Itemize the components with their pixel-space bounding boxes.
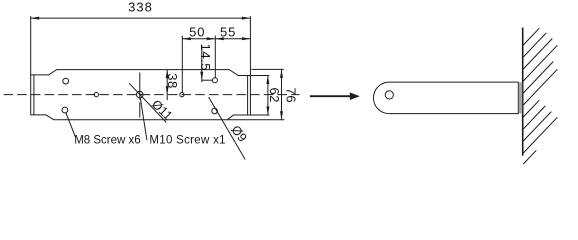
arrow 62 top [266, 76, 269, 85]
62 top extension line [250, 75, 269, 77]
arrow 38 top [166, 70, 169, 79]
dimension 14.5 line [201, 45, 203, 82]
hole center M10 diameter 11 [137, 91, 144, 98]
part bottom main edge extended to 76 dim [54, 119, 285, 121]
mounting plate gray strip [519, 82, 522, 113]
hole vertical centerline lower [139, 102, 141, 117]
arrow 50 left [182, 37, 191, 40]
arrow 338 left [31, 17, 40, 20]
part right inner end line [247, 76, 249, 116]
hole upper-left M8 [63, 78, 69, 84]
leader dia11 [129, 83, 166, 122]
svg-text:338: 338 [128, 0, 153, 15]
hole center-left M8 [94, 92, 98, 96]
wall hatching [523, 28, 557, 164]
extension line to hole at x=215 [214, 36, 216, 78]
arrow 76 bottom [280, 111, 283, 120]
dimension 76 line [281, 69, 283, 119]
part top edge with chamfers [31, 70, 251, 76]
leader dia9 [209, 97, 246, 160]
svg-text:M8 Screw x6: M8 Screw x6 [74, 135, 140, 147]
hole center-right M8 [180, 93, 184, 97]
side view big arrowhead [350, 92, 360, 100]
arrow 14.5 bottom [200, 72, 203, 81]
dimension 14.5 horizontal to hole [202, 79, 213, 81]
svg-text:50: 50 [189, 24, 205, 39]
part left outer edge / 338 extension [30, 16, 32, 115]
leader M10 label [140, 98, 147, 141]
arrow 50 right [207, 37, 216, 40]
leader M8 label [66, 113, 76, 137]
part left inner end line [33, 75, 35, 115]
arrow 55 left [215, 37, 224, 40]
hole vertical centerline upper [139, 73, 141, 100]
wall line [522, 28, 524, 156]
svg-text:14.5: 14.5 [198, 44, 213, 71]
hole lower-left M8 [62, 107, 68, 113]
svg-text:55: 55 [220, 24, 236, 39]
arrow 62 bottom [266, 107, 269, 116]
svg-text:Ø11: Ø11 [149, 97, 175, 123]
part bottom tongue edge left with chamfer [31, 115, 54, 120]
svg-text:38: 38 [165, 73, 180, 88]
arrow 38 bottom [166, 86, 169, 95]
svg-text:M10 Screw x1: M10 Screw x1 [149, 135, 225, 147]
part bottom tongue edge right with chamfer, extended to 62 dim [228, 115, 270, 120]
dimension 50-55 line [182, 38, 250, 40]
arrow 76 top [280, 69, 283, 78]
arrow 55 right [242, 37, 251, 40]
side view bar outline [373, 82, 518, 114]
part right outer edge / 338 extension [249, 16, 251, 115]
hole lower-right diameter 9 [212, 108, 218, 114]
arrow 338 right [242, 17, 251, 20]
side view hole [385, 91, 393, 99]
dimension 338 line [31, 17, 251, 19]
hole upper-right M8 [212, 78, 217, 83]
dimension 62 line [267, 76, 269, 116]
centerline horizontal dashed [4, 94, 300, 96]
svg-text:62: 62 [267, 87, 282, 102]
svg-text:76: 76 [283, 88, 298, 103]
dimension 38 line [166, 70, 168, 101]
svg-text:Ø9: Ø9 [228, 123, 249, 145]
side view arrow shaft [310, 95, 351, 97]
extension line to hole at x=182 [181, 36, 183, 93]
76 top extension line [251, 68, 283, 70]
